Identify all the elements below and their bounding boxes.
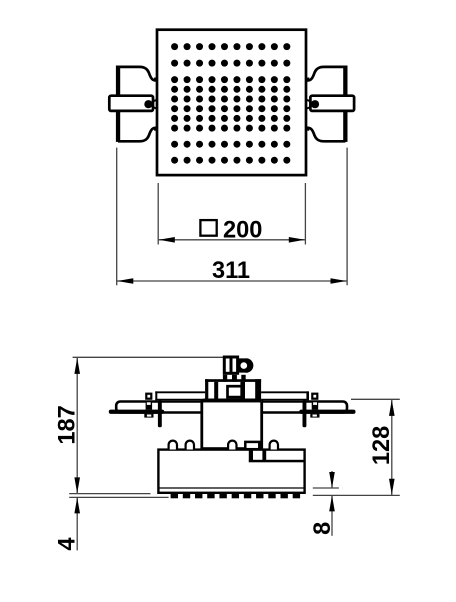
extension line 8 top (313, 487, 339, 489)
housing bracket (245, 442, 259, 449)
dimension line 187 (74, 357, 80, 493)
housing internal line (158, 487, 304, 489)
extension line 311 left (116, 148, 118, 286)
left bracket bottom wing (118, 128, 157, 142)
housing nubs (169, 441, 278, 450)
dimension line 4 (74, 497, 80, 550)
hanger rod left (158, 400, 162, 427)
mounting plate (155, 391, 309, 400)
extension line 128 top (351, 398, 400, 400)
left bracket pin notches (152, 100, 157, 108)
left bracket top wing (118, 67, 157, 81)
svg-text:4: 4 (55, 537, 81, 550)
nozzle teeth (171, 494, 301, 498)
extension line 128 bottom (313, 494, 400, 496)
extension line bottom B (69, 496, 168, 498)
square symbol (200, 220, 216, 236)
left bracket vertical bar (116, 66, 120, 142)
right bracket pin notches (307, 100, 312, 108)
right bracket pin dot (311, 100, 319, 108)
extension line 200 left (157, 183, 159, 245)
dimension line 128 (389, 399, 395, 495)
dimension line 200 (158, 237, 305, 243)
svg-text:128: 128 (369, 426, 395, 465)
stepped block (203, 379, 261, 402)
extension line 187 top (73, 356, 224, 358)
svg-text:8: 8 (310, 522, 336, 535)
arm bottom rail left (109, 410, 164, 414)
spray housing box (158, 450, 304, 493)
hanger rod right (303, 400, 307, 427)
dimension line 8 (329, 471, 335, 536)
left bracket middle bar (109, 96, 153, 111)
inlet fitting (224, 357, 237, 374)
bolt right (310, 394, 319, 418)
extension line bottom A (69, 493, 150, 495)
upper housing block (202, 401, 262, 449)
inlet neck legs (223, 375, 246, 382)
mounting arm (116, 402, 347, 413)
nozzle grid (171, 43, 290, 164)
svg-text:187: 187 (55, 405, 81, 444)
shower plate outline (157, 30, 306, 175)
housing ledge (249, 460, 305, 463)
label 8 (310, 522, 336, 535)
arm bottom rail right (299, 410, 355, 414)
label 311 (212, 258, 250, 284)
dimension line 311 (117, 278, 347, 284)
right bracket middle bar (310, 96, 354, 111)
extension line 311 right (346, 148, 348, 286)
hose hook (239, 358, 253, 372)
bolt left (144, 394, 153, 418)
svg-text:200: 200 (223, 217, 262, 243)
svg-text:311: 311 (212, 258, 250, 284)
left bracket pin dot (144, 100, 152, 108)
label 200 (223, 217, 262, 243)
extension line 200 right (304, 183, 306, 245)
right bracket bottom wing (307, 128, 346, 142)
right bracket top wing (307, 67, 346, 81)
label 4 (55, 537, 81, 550)
label 187 (55, 405, 81, 444)
bracket support bars (249, 450, 266, 462)
label 128 (369, 426, 395, 465)
right bracket vertical bar (343, 66, 347, 142)
